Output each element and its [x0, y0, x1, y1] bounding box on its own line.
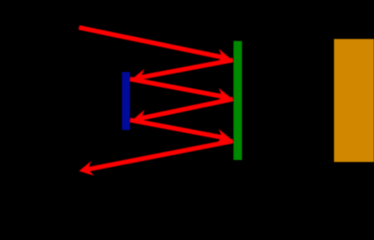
arrowhead E at green — [216, 129, 231, 144]
beam segment E: blue to green — [130, 120, 224, 138]
beam segment A: entry ray to green mirror — [79, 28, 224, 58]
arrowhead D at blue — [133, 110, 148, 125]
beam segment C: blue to green — [130, 79, 224, 97]
arrowhead B at blue — [132, 69, 147, 84]
green mirror (right bar) — [234, 41, 243, 160]
arrowhead A at green — [216, 49, 231, 64]
arrowhead C at green — [216, 88, 231, 103]
blue intracavity element (left bar) — [122, 72, 130, 130]
arrowhead F exit — [79, 161, 94, 176]
beam segment D: green to blue — [139, 99, 233, 119]
beam segment F: green to exit at bottom-left — [86, 141, 233, 170]
orange block — [334, 39, 374, 162]
beam segment B: green to blue — [139, 60, 233, 78]
